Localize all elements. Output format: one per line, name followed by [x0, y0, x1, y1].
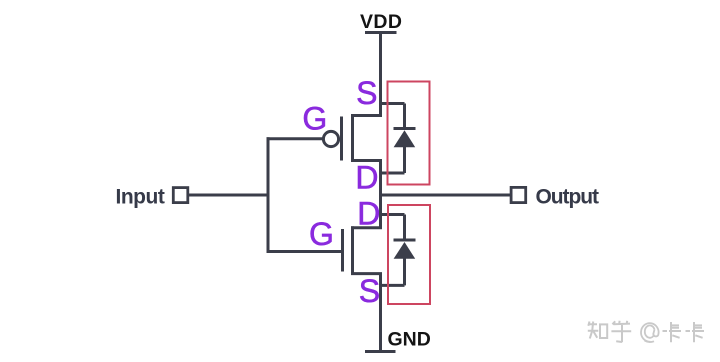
pin label G (PMOS gate), purple [302, 100, 327, 136]
NMOS Q2 gate bar [341, 229, 344, 272]
wire: PMOS body diode vertical (anode side) [403, 147, 406, 174]
wire: VDD rail to PMOS source [379, 33, 382, 118]
PMOS Q1 gate bubble [323, 131, 338, 146]
wire: bus to PMOS gate (through bubble) [267, 137, 324, 140]
watermark: 知乎 @卡卡 (drawn strokes) [588, 321, 631, 342]
svg-text:S: S [356, 75, 377, 111]
net VDD label [360, 11, 402, 33]
NMOS body diode D2: cathode bar [394, 239, 416, 242]
wire: NMOS body diode vertical (cathode side) [403, 215, 406, 241]
label Input [116, 185, 165, 208]
pin label S (PMOS source), purple [356, 75, 377, 111]
PMOS Q1 gate bar [340, 117, 343, 161]
PMOS Q1 source bar [351, 114, 382, 117]
input terminal square [173, 188, 188, 203]
PMOS Q1 channel bar [351, 114, 354, 162]
highlight box around NMOS body diode (red) [388, 205, 430, 304]
NMOS body diode D2: triangle (anode, pointing up) [394, 242, 416, 259]
svg-text:D: D [357, 196, 380, 232]
label Output [536, 185, 600, 208]
wire: NMOS body diode vertical (anode side) [403, 258, 406, 285]
wire: gate bus vertical (input node) [267, 137, 270, 253]
watermark char 卡 (first) [663, 322, 682, 342]
PMOS body diode D1: cathode bar [394, 127, 416, 130]
svg-text:GND: GND [388, 329, 431, 351]
PMOS Q1 drain bar [351, 159, 382, 162]
watermark char @ [641, 323, 659, 342]
svg-text:S: S [359, 273, 380, 309]
PMOS body diode D1: triangle (anode, pointing up) [394, 130, 416, 147]
wire: input terminal to gate bus [189, 194, 270, 197]
NMOS Q2 source bar [351, 272, 382, 275]
wire: PMOS source node to body diode (top branch) [381, 102, 405, 105]
GND rail bar [365, 350, 396, 353]
wire: PMOS body diode vertical (cathode side) [403, 104, 406, 129]
svg-text:VDD: VDD [360, 11, 402, 33]
wire: PMOS drain down to output node [379, 161, 382, 197]
highlight box around PMOS body diode (red) [388, 82, 430, 185]
watermark char 卡 (second) [686, 322, 705, 342]
svg-text:Input: Input [116, 185, 165, 208]
svg-text:Output: Output [536, 185, 600, 208]
NMOS Q2 channel bar [351, 226, 354, 275]
output terminal square [511, 187, 526, 202]
wire: PMOS body diode to drain node (bottom branch) [381, 172, 405, 175]
pin label G (NMOS gate), purple [309, 216, 334, 252]
VDD power rail bar [365, 31, 397, 34]
pin label S (NMOS source), purple [359, 273, 380, 309]
NMOS Q2 drain bar [351, 226, 382, 229]
wire: bus to NMOS gate [267, 250, 342, 253]
svg-text:G: G [302, 100, 327, 136]
wire: NMOS source down to GND rail [379, 274, 382, 352]
wire: NMOS drain node to body diode (top branch) [381, 213, 405, 216]
wire: NMOS body diode to source node (bottom branch) [381, 284, 405, 287]
watermark char 乎 [611, 321, 631, 342]
wire: output node down to NMOS drain [379, 195, 382, 229]
pin label D (NMOS drain), purple [357, 196, 380, 232]
net GND label [388, 329, 431, 351]
svg-text:D: D [355, 159, 378, 195]
pin label D (PMOS drain), purple [355, 159, 378, 195]
svg-text:G: G [309, 216, 334, 252]
watermark char 知 [588, 322, 599, 339]
node: output junction / wire to output terminal [381, 194, 511, 197]
